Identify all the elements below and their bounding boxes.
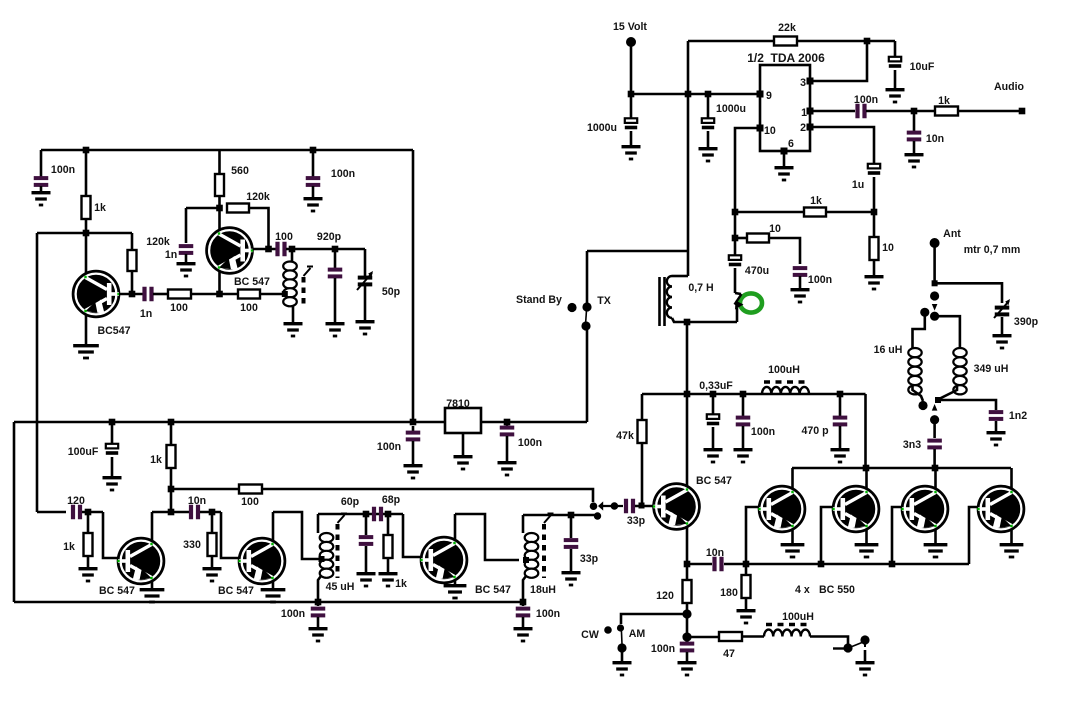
svg-text:100n: 100n: [518, 437, 542, 449]
svg-text:BC547: BC547: [98, 325, 131, 337]
svg-text:10n: 10n: [706, 547, 724, 559]
svg-text:Audio: Audio: [994, 81, 1025, 93]
svg-text:1k: 1k: [810, 195, 822, 207]
svg-text:BC 547: BC 547: [99, 585, 135, 597]
svg-text:BC 547: BC 547: [218, 585, 254, 597]
svg-text:22k: 22k: [778, 22, 796, 34]
svg-text:68p: 68p: [382, 494, 401, 506]
svg-text:50p: 50p: [382, 286, 401, 298]
svg-text:10: 10: [764, 125, 776, 137]
svg-text:6: 6: [788, 138, 794, 150]
svg-text:1/2 TDA 2006: 1/2 TDA 2006: [747, 51, 825, 65]
svg-text:mtr 0,7 mm: mtr 0,7 mm: [964, 244, 1021, 256]
svg-text:9: 9: [766, 90, 772, 102]
svg-text:100uH: 100uH: [768, 364, 800, 376]
svg-text:45 uH: 45 uH: [326, 581, 355, 593]
svg-text:100n: 100n: [536, 608, 560, 620]
svg-text:120k: 120k: [246, 191, 270, 203]
svg-text:1: 1: [801, 107, 807, 119]
svg-text:BC 547: BC 547: [475, 584, 511, 596]
svg-text:4 x: 4 x: [795, 584, 810, 596]
svg-text:100: 100: [275, 231, 293, 243]
svg-text:100n: 100n: [751, 426, 775, 438]
svg-text:BC 547: BC 547: [696, 475, 732, 487]
svg-text:390p: 390p: [1014, 316, 1039, 328]
svg-text:60p: 60p: [341, 496, 360, 508]
svg-text:1k: 1k: [395, 578, 407, 590]
svg-text:100n: 100n: [377, 441, 401, 453]
svg-text:TX: TX: [597, 295, 611, 307]
svg-text:0,7 H: 0,7 H: [688, 282, 713, 294]
svg-text:100n: 100n: [281, 608, 305, 620]
svg-text:100uF: 100uF: [68, 446, 99, 458]
svg-text:120: 120: [67, 495, 85, 507]
svg-text:Ant: Ant: [943, 228, 961, 240]
svg-text:100n: 100n: [808, 274, 832, 286]
svg-text:15 Volt: 15 Volt: [613, 21, 647, 33]
svg-text:AM: AM: [629, 628, 646, 640]
svg-text:2: 2: [800, 122, 806, 134]
svg-text:BC 550: BC 550: [819, 584, 855, 596]
svg-text:470u: 470u: [745, 265, 769, 277]
svg-text:10n: 10n: [188, 495, 206, 507]
svg-text:16 uH: 16 uH: [874, 344, 903, 356]
svg-text:10n: 10n: [926, 133, 944, 145]
svg-text:33p: 33p: [627, 515, 646, 527]
svg-text:CW: CW: [581, 629, 599, 641]
svg-text:7810: 7810: [446, 398, 470, 410]
svg-text:100n: 100n: [854, 94, 878, 106]
svg-text:330: 330: [183, 539, 201, 551]
svg-text:1u: 1u: [852, 179, 864, 191]
svg-text:560: 560: [231, 165, 249, 177]
svg-text:100: 100: [170, 302, 188, 314]
svg-text:120: 120: [656, 590, 674, 602]
svg-text:3n3: 3n3: [903, 439, 921, 451]
svg-text:349 uH: 349 uH: [974, 363, 1009, 375]
svg-text:120k: 120k: [146, 236, 170, 248]
svg-text:0,33uF: 0,33uF: [699, 380, 733, 392]
svg-text:1n: 1n: [165, 249, 177, 261]
svg-text:BC 547: BC 547: [234, 276, 270, 288]
svg-text:1n2: 1n2: [1009, 410, 1027, 422]
svg-text:33p: 33p: [580, 553, 599, 565]
svg-text:10: 10: [882, 242, 894, 254]
svg-text:1n: 1n: [140, 308, 152, 320]
svg-text:10: 10: [769, 223, 781, 235]
svg-text:1k: 1k: [94, 202, 106, 214]
svg-text:100: 100: [240, 302, 258, 314]
svg-text:470 p: 470 p: [801, 425, 829, 437]
svg-text:18uH: 18uH: [530, 584, 556, 596]
svg-text:Stand By: Stand By: [516, 294, 562, 306]
svg-text:100n: 100n: [51, 164, 75, 176]
svg-text:1k: 1k: [63, 541, 75, 553]
svg-text:100n: 100n: [331, 168, 355, 180]
svg-text:1k: 1k: [150, 454, 162, 466]
svg-text:47k: 47k: [616, 430, 634, 442]
svg-text:10uF: 10uF: [910, 61, 935, 73]
svg-text:100: 100: [241, 496, 259, 508]
svg-text:1k: 1k: [938, 95, 950, 107]
svg-text:1000u: 1000u: [587, 122, 617, 134]
svg-text:100n: 100n: [651, 643, 675, 655]
svg-text:100uH: 100uH: [782, 611, 814, 623]
svg-text:47: 47: [723, 648, 735, 660]
svg-text:3: 3: [800, 77, 806, 89]
svg-text:180: 180: [720, 587, 738, 599]
svg-text:1000u: 1000u: [716, 103, 746, 115]
svg-text:920p: 920p: [317, 231, 342, 243]
